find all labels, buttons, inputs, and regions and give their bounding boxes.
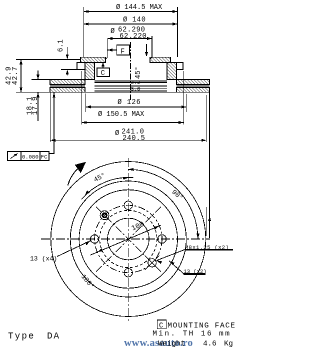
leader m8 bbox=[157, 250, 234, 261]
section: ring right top band bbox=[177, 80, 210, 85]
dim 6.1 arrows bbox=[66, 54, 69, 59]
svg-text:62.220: 62.220 bbox=[120, 33, 147, 41]
section: right flange step bbox=[171, 62, 184, 69]
svg-text:DA: DA bbox=[47, 332, 60, 342]
centerline section bbox=[130, 42, 132, 100]
runout leader arrow bbox=[53, 93, 56, 98]
FRONT VIEW bbox=[41, 158, 233, 321]
datum hole NW bbox=[100, 211, 109, 220]
svg-text:F: F bbox=[121, 49, 125, 57]
svg-text:6.1: 6.1 bbox=[58, 39, 66, 52]
circle r58 bbox=[70, 181, 186, 297]
centerline horizontal bbox=[41, 238, 210, 240]
dim 62 line bbox=[107, 38, 152, 40]
6.1 dim line bbox=[66, 47, 68, 59]
rotation arrow bbox=[68, 169, 78, 186]
svg-text:Ø 150.5 MAX: Ø 150.5 MAX bbox=[98, 110, 145, 119]
section: right wall bbox=[167, 62, 177, 79]
leader 13x4 bbox=[57, 241, 91, 257]
C datum box bbox=[97, 62, 110, 76]
front texts bbox=[30, 171, 233, 291]
dim 241 ext bbox=[49, 92, 51, 142]
note C mounting face bbox=[157, 320, 166, 329]
42.9 dim bbox=[16, 58, 81, 60]
outer circle bbox=[51, 162, 206, 317]
dim 126 arrows bbox=[86, 105, 91, 108]
bolt hole N bbox=[124, 201, 132, 209]
dim 144.5 extension lines bbox=[83, 7, 85, 57]
bolt hole E bbox=[158, 235, 166, 243]
section: ring right bottom band bbox=[177, 88, 210, 93]
dim 150.5 ext bbox=[81, 71, 83, 125]
threaded hole SE bbox=[148, 259, 156, 267]
front arrowheads bbox=[68, 162, 200, 266]
dim 100 line bbox=[91, 225, 161, 255]
svg-text:13 (x2): 13 (x2) bbox=[184, 268, 207, 275]
45 arc arrows bbox=[123, 177, 129, 180]
svg-text:4.6: 4.6 bbox=[203, 341, 217, 349]
section: left wall bbox=[85, 62, 95, 79]
svg-text:www.asauto.ro: www.asauto.ro bbox=[124, 338, 193, 349]
svg-text:Ø: Ø bbox=[111, 27, 115, 36]
runout feature control frame bbox=[8, 93, 55, 161]
18.1 dim bbox=[32, 79, 50, 81]
diagonal NW-SE bbox=[96, 207, 161, 272]
svg-text:C: C bbox=[159, 323, 163, 331]
svg-text:0.080: 0.080 bbox=[22, 154, 39, 161]
F datum box bbox=[107, 45, 129, 55]
svg-text:C: C bbox=[101, 70, 105, 78]
dim texts top bbox=[6, 3, 164, 143]
svg-text:3.0: 3.0 bbox=[131, 86, 141, 93]
bore circle bbox=[108, 218, 150, 260]
right extra vertical bbox=[205, 207, 207, 236]
dim 241 arrows bbox=[50, 139, 55, 142]
dim 144.5 line bbox=[84, 11, 178, 13]
svg-text:45°: 45° bbox=[134, 66, 143, 79]
section: ring left bottom band bbox=[50, 88, 85, 93]
svg-text:Ø 140: Ø 140 bbox=[123, 16, 146, 25]
svg-text:FC: FC bbox=[41, 154, 48, 161]
diagonal NE-SW bbox=[96, 207, 161, 272]
svg-text:MOUNTING FACE: MOUNTING FACE bbox=[168, 323, 236, 331]
bolt hole S bbox=[124, 269, 132, 277]
leader arrows bbox=[85, 241, 90, 246]
dim 62 extensions bbox=[106, 39, 108, 58]
dim 126 ext bbox=[85, 94, 87, 113]
svg-text:Kg: Kg bbox=[224, 341, 233, 349]
arrowheads dims section bbox=[20, 10, 212, 221]
90/180 arc arrows bbox=[197, 234, 200, 240]
dim 140 arrows bbox=[84, 23, 89, 26]
centerline vertical bbox=[127, 158, 129, 321]
svg-text:13 (x4): 13 (x4) bbox=[30, 256, 57, 263]
circle r48.7 bbox=[79, 190, 177, 288]
100 dim arrows bbox=[97, 248, 103, 252]
bolt hole W bbox=[90, 235, 98, 243]
right vertical up arrow bbox=[208, 216, 211, 221]
dashed hub circle bbox=[100, 210, 157, 267]
dim 150.5 arrows bbox=[82, 121, 87, 124]
svg-text:Ø: Ø bbox=[115, 129, 119, 138]
dim 144.5 arrows bbox=[84, 10, 89, 13]
section: ring left top band bbox=[50, 80, 85, 85]
45 deg arc bbox=[82, 177, 134, 199]
dim 42.9 arrows bbox=[20, 59, 23, 64]
svg-text:Ø 144.5 MAX: Ø 144.5 MAX bbox=[116, 3, 163, 12]
svg-text:Ø 126: Ø 126 bbox=[118, 98, 142, 107]
section: mid background lines bbox=[95, 80, 168, 82]
section: left flange step bbox=[77, 62, 85, 69]
svg-text:Type: Type bbox=[8, 332, 35, 342]
section: ring bottom line bbox=[50, 91, 210, 93]
dim 62 arrows bbox=[107, 37, 112, 40]
svg-text:240.5: 240.5 bbox=[123, 135, 146, 143]
section: hat plate right segment bbox=[150, 57, 171, 62]
bolt circle bbox=[95, 205, 162, 272]
dim 18.1 arrows bbox=[37, 75, 40, 80]
chamfer leader arrow bbox=[145, 52, 148, 57]
leader 13x2 bbox=[169, 261, 206, 274]
90/180 arc bbox=[128, 169, 198, 239]
svg-text:42.7: 42.7 bbox=[12, 66, 20, 85]
dim 140 line bbox=[84, 23, 178, 25]
bottom notes bbox=[8, 320, 236, 349]
svg-text:17.9: 17.9 bbox=[32, 96, 40, 115]
chamfer arrow line bbox=[146, 44, 148, 56]
section: hat plate left segment bbox=[81, 57, 106, 62]
